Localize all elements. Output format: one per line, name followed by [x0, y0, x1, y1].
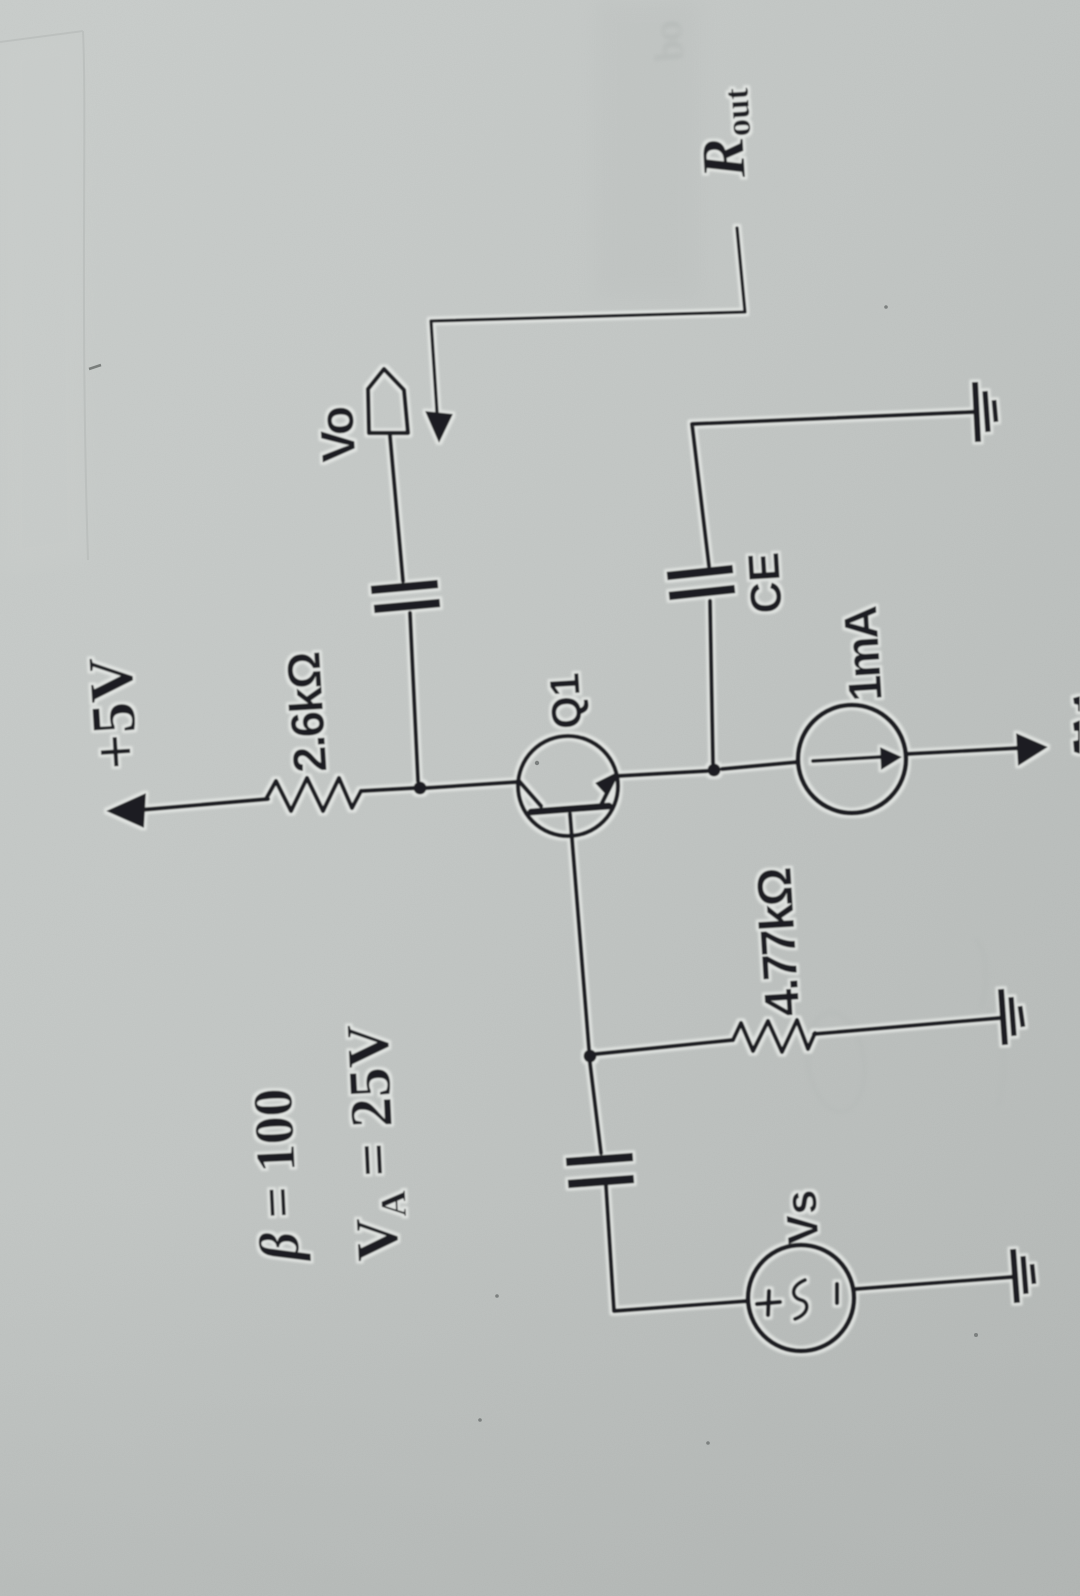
- svg-text:+5V: +5V: [75, 655, 152, 772]
- svg-text:2.6kΩ: 2.6kΩ: [276, 652, 336, 774]
- svg-text:4.77kΩ: 4.77kΩ: [748, 867, 811, 1018]
- svg-text:Q1: Q1: [540, 671, 590, 730]
- svg-text:Vs: Vs: [776, 1189, 828, 1246]
- svg-text:β = 100: β = 100: [242, 1087, 312, 1264]
- svg-text:1mA: 1mA: [833, 605, 892, 703]
- svg-text:Vo: Vo: [310, 406, 366, 464]
- svg-text:CE: CE: [739, 551, 792, 615]
